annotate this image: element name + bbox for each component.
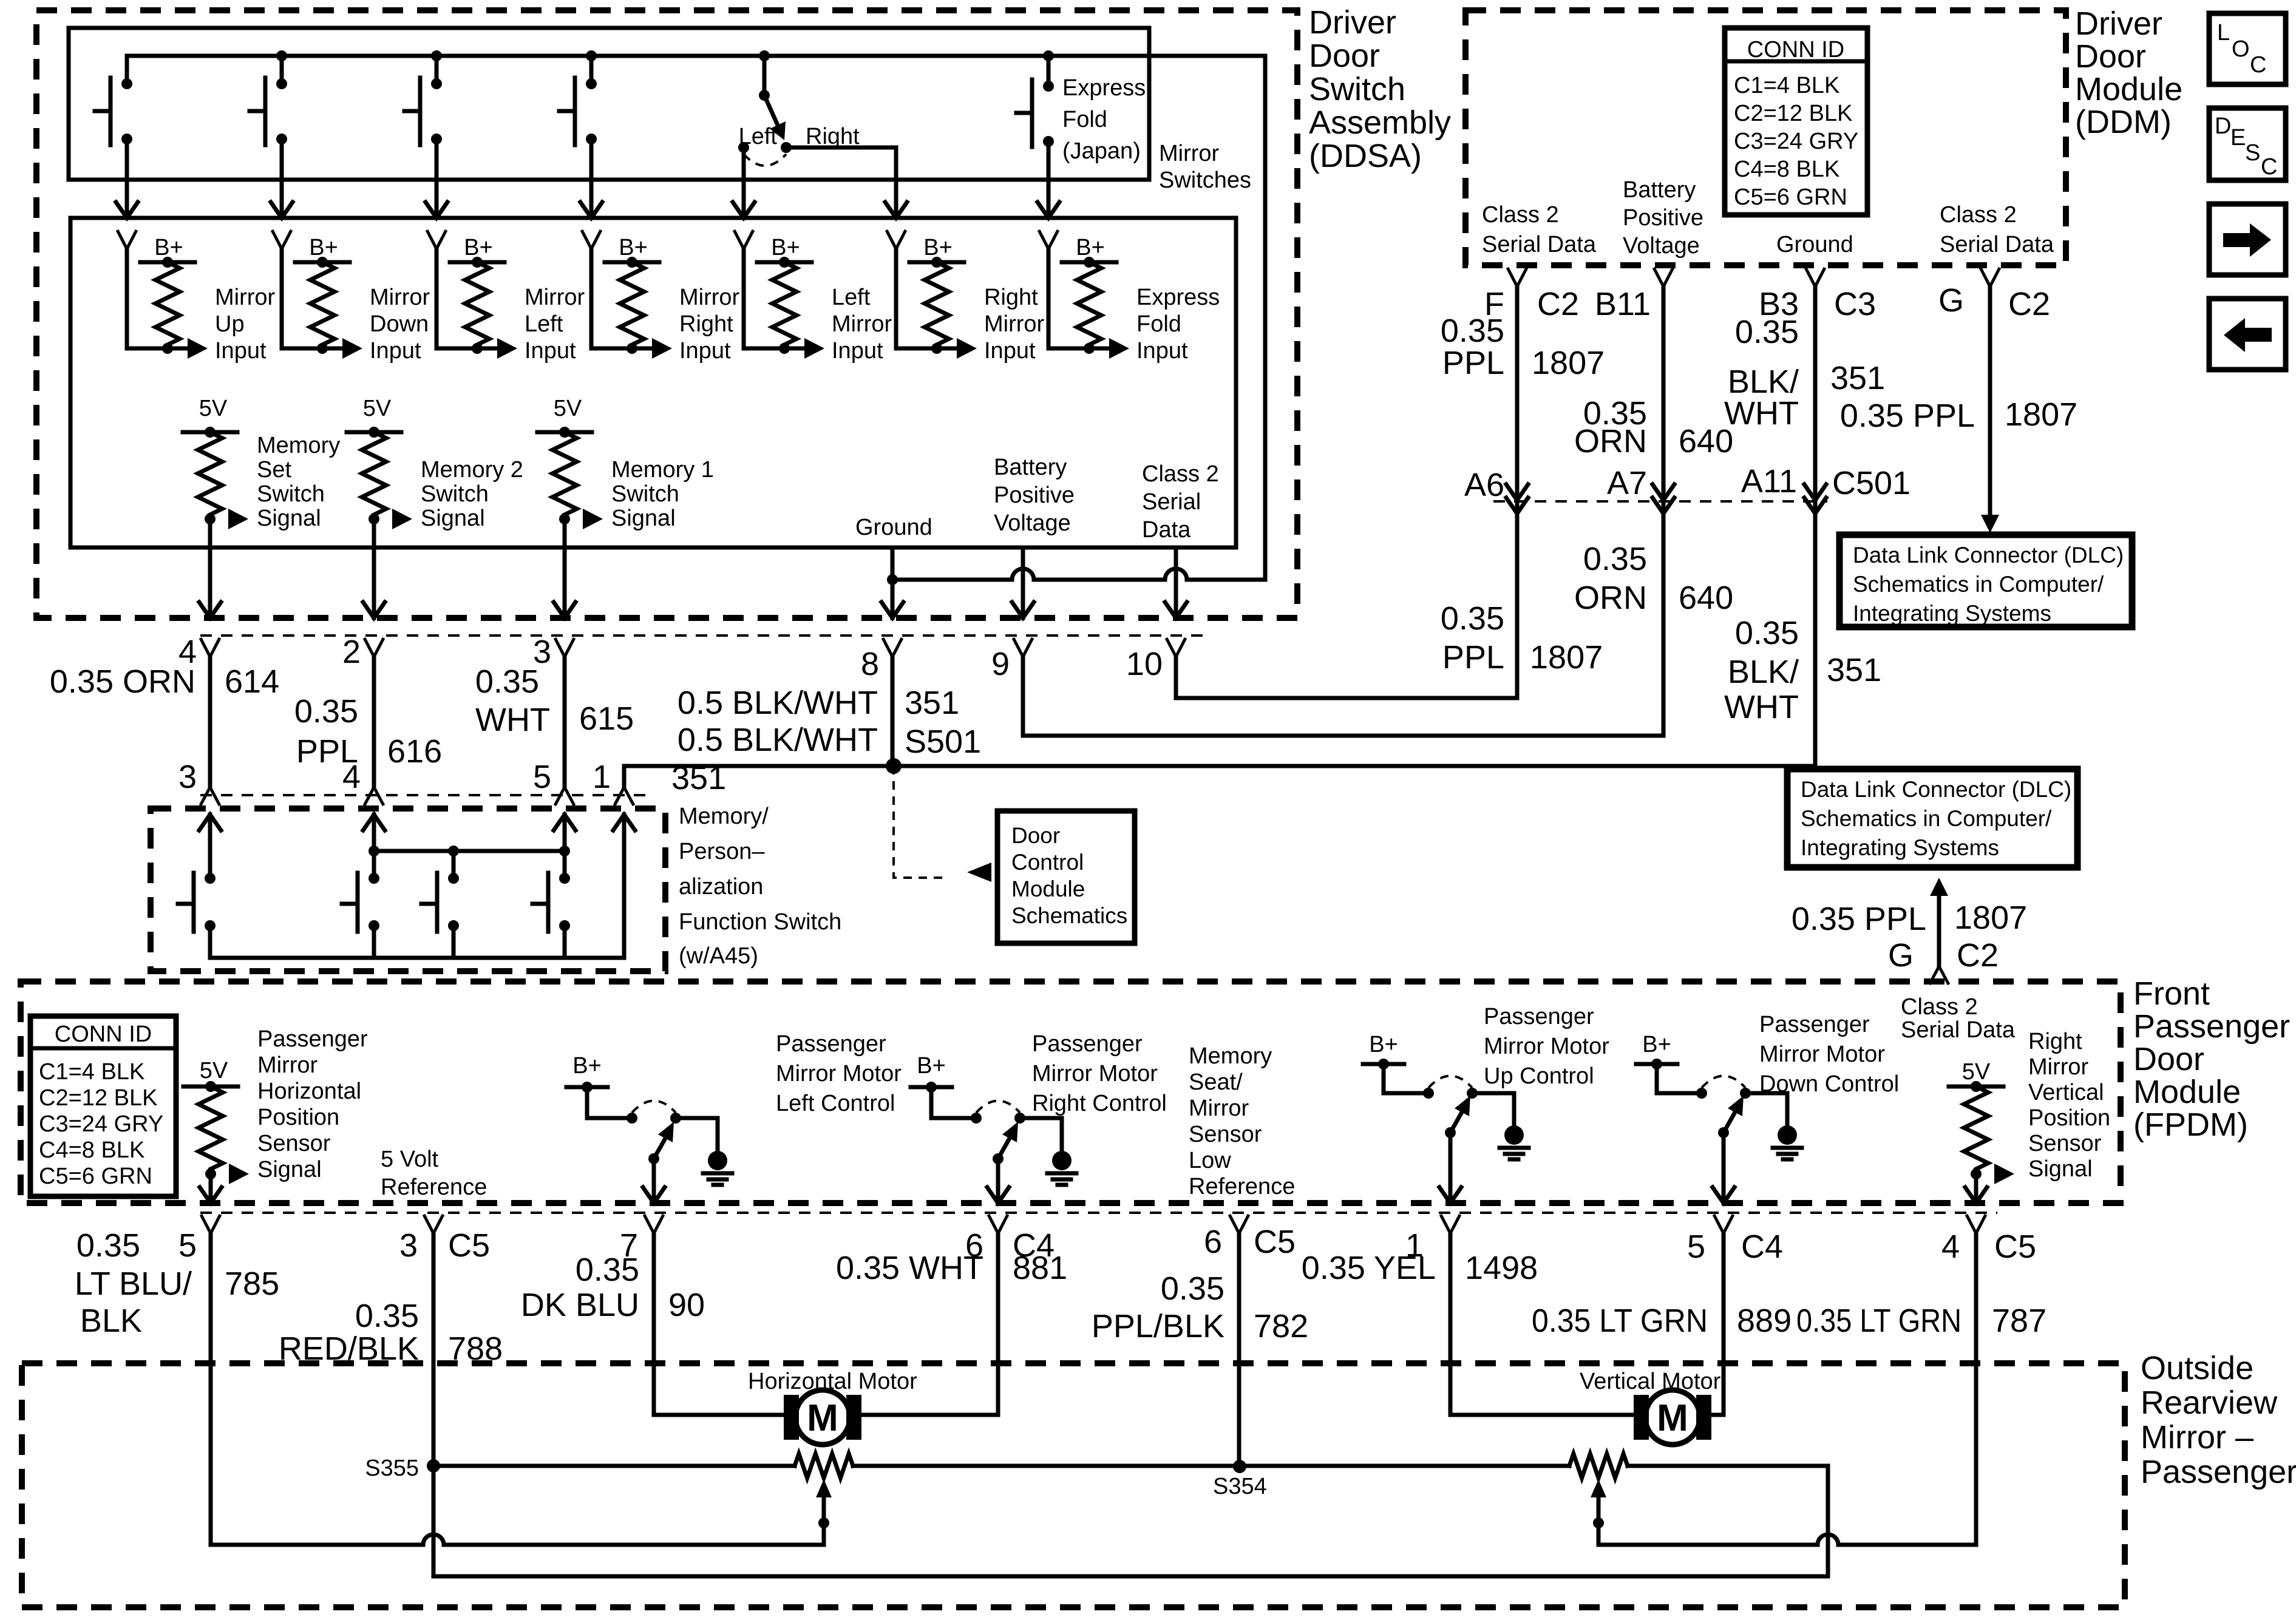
svg-text:PPL: PPL [1442, 345, 1504, 381]
svg-text:Memory: Memory [257, 433, 340, 458]
svg-text:5: 5 [178, 1227, 197, 1264]
wire to ground Up Control [1472, 1093, 1514, 1126]
svg-text:Vertical Motor: Vertical Motor [1580, 1369, 1721, 1394]
svg-text:C5=6 GRN: C5=6 GRN [39, 1164, 152, 1189]
wire sensor signal to pin 4 [1974, 1174, 1978, 1203]
svg-text:Input: Input [525, 338, 576, 364]
svg-text:Sensor: Sensor [257, 1131, 331, 1156]
DDSA input box (lower) [70, 218, 1236, 547]
svg-text:Mirror Motor: Mirror Motor [1032, 1061, 1158, 1086]
wire reference line through position sensors [433, 1464, 795, 1468]
svg-text:CONN ID: CONN ID [1747, 37, 1844, 63]
node Left Mirror Input junction [779, 343, 790, 354]
arrow up into DLC box 2 [1930, 878, 1948, 896]
wire Left Control output [652, 1159, 656, 1203]
svg-text:WHT: WHT [475, 702, 550, 738]
switch memory M4 [559, 873, 570, 884]
svg-text:Seat/: Seat/ [1189, 1070, 1243, 1095]
svg-text:5: 5 [533, 759, 551, 795]
svg-text:787: 787 [1992, 1303, 2046, 1339]
svg-text:CONN ID: CONN ID [55, 1022, 152, 1047]
connector pin Express Fold Input [1039, 230, 1058, 249]
svg-text:0.5 BLK/WHT: 0.5 BLK/WHT [678, 722, 878, 758]
svg-text:785: 785 [225, 1266, 279, 1302]
wire Express Fold Input internal drop [1047, 249, 1051, 348]
svg-text:615: 615 [579, 700, 634, 737]
resistor pull-up Express Fold Input [1077, 262, 1101, 345]
wire to ground Left Control [676, 1118, 718, 1151]
arrow into input box for Mirror Right Input [580, 202, 602, 218]
svg-text:Ground: Ground [1776, 232, 1853, 257]
svg-text:Memory 2: Memory 2 [421, 457, 523, 483]
switch lever Left Control [654, 1130, 670, 1159]
arrow memory switch wire into box at x=346 [199, 815, 221, 830]
svg-text:Ground: Ground [855, 515, 932, 540]
svg-text:Mirror Motor: Mirror Motor [1759, 1042, 1885, 1067]
svg-text:Battery: Battery [1623, 177, 1696, 203]
svg-text:Sensor: Sensor [2028, 1131, 2102, 1156]
svg-text:C2=12 BLK: C2=12 BLK [1734, 101, 1852, 126]
svg-text:Passenger: Passenger [257, 1026, 368, 1052]
wire into memory switch [563, 815, 567, 878]
arrow to Door Control Module schematics [967, 863, 991, 882]
connector pin Mirror Left Input [427, 230, 446, 249]
switch memory M2 [369, 873, 379, 884]
node splice S354 [1233, 1460, 1246, 1473]
pin 2 of DDSA connector [364, 638, 384, 657]
svg-text:1: 1 [593, 759, 611, 795]
wire Mirror Down Input internal drop [280, 249, 284, 348]
wire B11 battery positive [1662, 285, 1666, 501]
svg-text:Mirror Motor: Mirror Motor [776, 1061, 902, 1086]
wire memory switch to bottom bus [208, 926, 212, 958]
wire G class2 to DLC [1988, 285, 1992, 517]
svg-text:640: 640 [1679, 580, 1733, 616]
svg-text:Express: Express [1136, 285, 1220, 310]
wire reference return bottom [433, 1575, 1828, 1579]
svg-text:Passenger: Passenger [2141, 1454, 2296, 1490]
arrow Memory 2 wire at DDSA border [363, 602, 385, 618]
connector pin Right Mirror Input [886, 230, 906, 249]
node Mirror Right Input junction [627, 343, 637, 354]
svg-text:Fold: Fold [1062, 107, 1107, 132]
pin G of FPDM [1929, 966, 1949, 985]
motor Horizontal Motor brush right [846, 1395, 861, 1440]
svg-text:S: S [2245, 140, 2260, 166]
svg-text:Down Control: Down Control [1759, 1071, 1899, 1097]
wire Ground pin 8 drop [891, 547, 895, 618]
node wiper junction [1593, 1517, 1604, 1528]
node sensor signal junction [1971, 1168, 1982, 1179]
wire SW4 output down [589, 139, 594, 218]
svg-text:Assembly: Assembly [1309, 104, 1451, 141]
wire pin 9 drop [1021, 657, 1025, 736]
mirror switch box (DDSA upper) [69, 28, 1149, 180]
resistor pull-up Mirror Left Input [465, 262, 489, 345]
wire B+ to switch Left Control [587, 1087, 632, 1118]
svg-text:1807: 1807 [1954, 900, 2027, 936]
wire Memory signal down to connector [208, 519, 212, 618]
node Express Fold Input junction [1084, 343, 1095, 354]
arrow wire at FPDM border x=347 [200, 1187, 222, 1203]
node Mirror Left Input junction [472, 343, 483, 354]
svg-text:Mirror: Mirror [257, 1053, 318, 1078]
switch relay contacts Down Control [1696, 1088, 1707, 1099]
pin of FPDM connector x=3255 [1966, 1215, 1986, 1233]
arrow memory switch wire into box at x=616 [363, 815, 385, 830]
svg-text:0.35: 0.35 [475, 663, 539, 700]
svg-text:D: D [2215, 114, 2231, 139]
svg-text:2: 2 [342, 634, 361, 670]
switch relay contacts Up Control [1423, 1088, 1434, 1099]
wire horizontal position signal to pin 5 [211, 1233, 824, 1545]
svg-text:B+: B+ [1076, 235, 1105, 260]
svg-text:Data Link Connector (DLC): Data Link Connector (DLC) [1801, 777, 2071, 802]
connector line DDSA (thin dashed) [200, 634, 1208, 637]
svg-text:Door: Door [2075, 38, 2146, 75]
node Mirror Up Input junction [162, 343, 173, 354]
svg-text:Control: Control [1011, 850, 1084, 875]
svg-text:Module: Module [1011, 876, 1085, 901]
svg-text:Switch: Switch [421, 481, 489, 507]
wire to input node Mirror Down Input [282, 347, 342, 351]
previous-page arrow box [2209, 299, 2286, 370]
svg-text:Memory: Memory [1189, 1043, 1272, 1069]
svg-text:Front: Front [2133, 975, 2210, 1012]
svg-text:Right: Right [679, 311, 733, 337]
svg-text:351: 351 [1830, 360, 1885, 396]
svg-text:Mirror: Mirror [525, 285, 585, 310]
wire pin 10 drop [1174, 657, 1178, 698]
wire to input node Left Mirror Input [744, 347, 804, 351]
svg-text:G: G [1888, 937, 1914, 974]
arrow wire at FPDM border x=1077 [643, 1187, 665, 1203]
wire into memory switch [372, 815, 376, 878]
svg-text:Signal: Signal [257, 1157, 322, 1182]
svg-text:Input: Input [984, 338, 1036, 364]
arrow into input box for Mirror Up Input [116, 202, 138, 218]
pin of FPDM connector x=2839 [1714, 1215, 1733, 1233]
connector line DDSA lower (thin dashed) [200, 794, 647, 796]
switch SW1 (momentary, mirror direction 1) [125, 56, 129, 84]
wire F class2 serial data [1515, 285, 1520, 501]
svg-text:Set: Set [257, 457, 291, 483]
pin of FPDM connector x=2389 [1441, 1215, 1460, 1233]
pin F/C2 of DDM [1507, 268, 1527, 286]
svg-text:Passenger: Passenger [1484, 1004, 1594, 1029]
svg-text:Driver: Driver [1309, 4, 1396, 41]
switch Express Fold (momentary) [1043, 50, 1054, 61]
svg-text:4: 4 [1941, 1229, 1960, 1265]
svg-text:Memory 1: Memory 1 [611, 457, 714, 483]
wire pin 1 to vertical motor left terminal [1450, 1233, 1634, 1415]
svg-text:1498: 1498 [1465, 1250, 1538, 1286]
wire vertical position signal to pin 4 [1598, 1534, 1976, 1545]
svg-text:C5: C5 [448, 1227, 490, 1264]
svg-text:PPL/BLK: PPL/BLK [1092, 1308, 1224, 1344]
connector line FPDM (thin dashed) [200, 1212, 1997, 1214]
svg-text:Signal: Signal [421, 506, 485, 531]
svg-text:5: 5 [1687, 1229, 1705, 1265]
wire Right Mirror Input internal drop [894, 249, 898, 348]
selector dashed arc between Left and Right contacts [744, 154, 786, 166]
node Memory signal junction [205, 514, 216, 524]
wire vertical motor right terminal to pin 5 C4 [1711, 1233, 1724, 1415]
svg-text:C1=4 BLK: C1=4 BLK [39, 1059, 144, 1085]
switch memory M1 [205, 873, 216, 884]
wire Mirror Right Input internal drop [589, 249, 594, 348]
arrow Memory 1 wire at DDSA border [554, 602, 576, 618]
svg-text:881: 881 [1013, 1250, 1067, 1286]
svg-text:BLK/: BLK/ [1728, 364, 1799, 400]
node wiper junction [818, 1517, 829, 1528]
svg-text:Integrating Systems: Integrating Systems [1801, 835, 1999, 860]
svg-text:Signal: Signal [2028, 1156, 2093, 1182]
node sensor signal junction [205, 1168, 216, 1179]
motor Vertical Motor body [1645, 1390, 1700, 1445]
svg-text:Position: Position [257, 1105, 339, 1130]
svg-text:S501: S501 [905, 724, 981, 760]
svg-text:Down: Down [370, 311, 429, 337]
svg-text:Mirror: Mirror [370, 285, 430, 310]
svg-text:BLK: BLK [80, 1303, 142, 1339]
svg-text:Serial Data: Serial Data [1901, 1017, 2016, 1043]
wire Left Mirror Input internal drop [742, 249, 746, 348]
svg-text:Serial Data: Serial Data [1482, 232, 1597, 257]
svg-text:616: 616 [387, 733, 442, 770]
wire B+ to switch Right Control [931, 1087, 976, 1118]
CONN ID table DDM [1725, 28, 1867, 215]
arrow wire into connector at x=2990 [1804, 484, 1826, 500]
wire Express Fold switch output down [1047, 141, 1051, 218]
svg-text:Mirror: Mirror [679, 285, 740, 310]
Data Link Connector reference box 2 [1787, 769, 2077, 867]
svg-text:C: C [2261, 154, 2277, 180]
svg-text:8: 8 [861, 646, 879, 682]
wire pin 3 through connector [563, 657, 567, 787]
arrow wire into connector at x=2740 [1652, 484, 1674, 500]
wire SW2 output down [280, 139, 284, 218]
svg-text:S355: S355 [365, 1456, 419, 1481]
connector pin Mirror Down Input [272, 230, 291, 249]
wire pin 8 to splice S501 [891, 657, 895, 766]
svg-text:B11: B11 [1595, 286, 1651, 322]
svg-text:(DDM): (DDM) [2075, 104, 2172, 140]
svg-text:C2: C2 [2008, 286, 2050, 322]
wire internal ground bus with hops [892, 569, 1265, 580]
node splice S355 [427, 1459, 440, 1473]
svg-text:0.35: 0.35 [576, 1252, 639, 1288]
svg-text:Serial Data: Serial Data [1940, 232, 2054, 257]
svg-text:782: 782 [1254, 1308, 1308, 1344]
svg-text:E: E [2230, 125, 2246, 151]
wire A7 battery routed to DDSA pin 9 [1023, 501, 1663, 736]
resistor pull-up Mirror Down Input [310, 262, 335, 345]
wire pin 7 to horizontal motor left terminal [654, 1233, 784, 1415]
wire to input node Express Fold Input [1048, 347, 1109, 351]
resistor pull-up Right Mirror Input [925, 262, 949, 345]
svg-text:Class 2: Class 2 [1142, 461, 1219, 487]
svg-text:5V: 5V [199, 396, 228, 421]
svg-text:A7: A7 [1607, 465, 1647, 501]
svg-text:0.35 LT GRN: 0.35 LT GRN [1532, 1303, 1708, 1339]
wire memory box bottom bus [210, 956, 624, 960]
wire to input node Mirror Left Input [436, 347, 497, 351]
svg-text:Right: Right [984, 285, 1038, 310]
svg-text:0.35: 0.35 [294, 693, 358, 730]
svg-text:C: C [2250, 52, 2266, 78]
svg-text:alization: alization [679, 874, 763, 900]
switch lever Up Control [1450, 1103, 1467, 1133]
svg-text:Up: Up [215, 311, 245, 337]
node Right contact [781, 142, 792, 153]
potentiometer horizontal position sensor [795, 1454, 853, 1478]
wiper vertical position sensor [1591, 1479, 1606, 1497]
node Memory 2 signal junction [369, 514, 379, 524]
node link junction [448, 846, 459, 856]
svg-text:Positive: Positive [994, 483, 1075, 508]
svg-text:Class 2: Class 2 [1482, 202, 1559, 228]
wire Down Control output [1722, 1133, 1726, 1203]
selector switch Left/Right common feed [759, 50, 770, 61]
svg-text:0.35 LT GRN: 0.35 LT GRN [1796, 1303, 1961, 1339]
svg-text:351: 351 [905, 685, 959, 721]
svg-text:(Japan): (Japan) [1062, 138, 1141, 164]
svg-text:3: 3 [178, 759, 197, 795]
svg-text:Left Control: Left Control [776, 1091, 895, 1116]
svg-text:Schematics in Computer/: Schematics in Computer/ [1853, 572, 2104, 597]
connector line C501 (dashed) [1493, 500, 1827, 503]
svg-text:ORN: ORN [1574, 580, 1647, 616]
connector pin Left Mirror Input [734, 230, 753, 249]
node Left contact [738, 142, 749, 153]
motor Vertical Motor brush left [1634, 1395, 1649, 1440]
svg-text:Mirror Motor: Mirror Motor [1484, 1034, 1609, 1059]
svg-text:C3: C3 [1834, 286, 1876, 322]
svg-text:Driver: Driver [2075, 5, 2162, 42]
arrow into input box for Express Fold Input [1038, 202, 1059, 218]
wire Memory 1 signal down to connector [563, 519, 567, 618]
svg-text:0.35: 0.35 [1161, 1270, 1224, 1307]
wire dashed reference to Door Control Module [894, 766, 948, 878]
svg-text:Signal: Signal [611, 506, 676, 531]
svg-text:0.35: 0.35 [1735, 615, 1799, 651]
svg-text:Outside: Outside [2141, 1350, 2254, 1386]
svg-text:PPL: PPL [296, 733, 358, 770]
svg-text:C3=24 GRY: C3=24 GRY [39, 1111, 163, 1137]
svg-text:M: M [1657, 1397, 1688, 1439]
resistor Memory pull-up [198, 432, 222, 515]
svg-text:C5=6 GRN: C5=6 GRN [1734, 185, 1847, 210]
wire memory switch to bottom bus [372, 926, 376, 958]
node splice S501 [886, 758, 902, 774]
wire stub link to switch 3 [452, 851, 456, 878]
svg-text:B+: B+ [619, 235, 648, 260]
svg-text:Reference: Reference [381, 1175, 487, 1200]
svg-text:C1=4 BLK: C1=4 BLK [1734, 73, 1839, 98]
svg-text:Schematics in Computer/: Schematics in Computer/ [1801, 806, 2052, 831]
wire reference return right side [1826, 1466, 1830, 1576]
svg-text:Memory/: Memory/ [679, 804, 769, 829]
svg-text:0.35 PPL: 0.35 PPL [1792, 901, 1926, 937]
wire Mirror Left Input internal drop [435, 249, 439, 348]
arrow into input box for Mirror Left Input [426, 202, 447, 218]
svg-text:0.35 WHT: 0.35 WHT [836, 1250, 983, 1286]
svg-text:9: 9 [991, 646, 1010, 682]
pin 1 lower connector [614, 787, 634, 805]
svg-text:0.35: 0.35 [1441, 313, 1504, 349]
svg-text:351: 351 [1827, 652, 1881, 688]
wire to input node Mirror Up Input [127, 347, 188, 351]
svg-text:B+: B+ [309, 235, 338, 260]
wire B+ to switch Down Control [1657, 1064, 1702, 1093]
svg-text:A6: A6 [1464, 467, 1504, 503]
node link junction [369, 846, 379, 856]
pin 4 of DDSA connector [200, 638, 220, 657]
svg-text:10: 10 [1126, 646, 1163, 682]
ground Right Control [1052, 1151, 1072, 1170]
svg-text:889: 889 [1737, 1303, 1792, 1339]
wire to input node Mirror Right Input [591, 347, 652, 351]
svg-text:Input: Input [679, 338, 731, 364]
svg-text:O: O [2232, 36, 2250, 62]
switch lever Right Control [998, 1130, 1014, 1159]
svg-text:Input: Input [215, 338, 267, 364]
wire from Left contact to input box [742, 147, 746, 218]
svg-text:Switches: Switches [1159, 168, 1251, 193]
connector pin Mirror Up Input [117, 230, 137, 249]
pin of FPDM connector x=1644 [988, 1215, 1008, 1233]
svg-text:6: 6 [1204, 1224, 1222, 1260]
svg-text:Class 2: Class 2 [1901, 994, 1978, 1020]
svg-text:C4=8 BLK: C4=8 BLK [1734, 157, 1839, 182]
svg-text:Person–: Person– [679, 839, 765, 864]
pin G/C2 of DDM [1980, 268, 2000, 286]
svg-text:C4=8 BLK: C4=8 BLK [39, 1137, 144, 1163]
arrow into input box for Right Mirror Input [885, 202, 907, 218]
pin 10 of DDSA connector [1166, 638, 1186, 657]
svg-text:B+: B+ [464, 235, 493, 260]
switch memory M3 [448, 873, 459, 884]
Driver Door Switch Assembly (DDSA) dashed enclosure [36, 10, 1297, 618]
arrow into DLC box 1 [1981, 515, 1999, 533]
node ground bus junction [887, 574, 898, 585]
svg-text:B+: B+ [1369, 1032, 1398, 1057]
svg-text:Switch: Switch [611, 481, 679, 507]
wire to input node Right Mirror Input [896, 347, 957, 351]
motor Horizontal Motor brush left [784, 1395, 799, 1440]
wire ground bus along top of switch box [127, 54, 1265, 58]
svg-text:Voltage: Voltage [1623, 233, 1700, 259]
arrow memory switch wire into box at x=930 [554, 815, 576, 830]
Data Link Connector reference box 1 [1839, 535, 2132, 627]
arrow wire at FPDM border x=1644 [987, 1187, 1009, 1203]
svg-text:5 Volt: 5 Volt [381, 1147, 439, 1172]
svg-text:0.35 PPL: 0.35 PPL [1840, 398, 1975, 434]
svg-text:C2: C2 [1957, 937, 1999, 974]
wire low reference pin 6 C5 to S354 [1237, 1233, 1241, 1466]
wire B3 ground [1813, 285, 1818, 501]
motor Horizontal Motor body [795, 1390, 850, 1445]
wire from Right contact routed right then down [786, 147, 896, 218]
svg-text:Passenger: Passenger [776, 1031, 886, 1057]
svg-text:Mirror: Mirror [2028, 1054, 2089, 1080]
svg-text:1807: 1807 [1532, 345, 1605, 381]
svg-text:Horizontal: Horizontal [257, 1079, 361, 1104]
wire horizontal motor right terminal to pin 6 C4 [861, 1233, 998, 1415]
svg-text:0.35: 0.35 [1441, 600, 1504, 637]
svg-text:WHT: WHT [1724, 395, 1799, 432]
